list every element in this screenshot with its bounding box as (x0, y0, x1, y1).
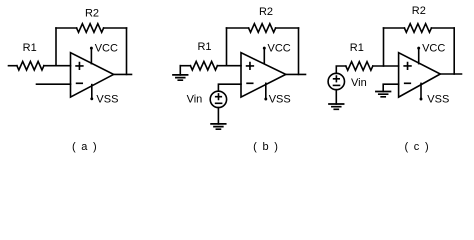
wire: Vin top to R1 (c) (336, 66, 346, 73)
svg-text:R1: R1 (350, 42, 364, 54)
svg-text:( a ): ( a ) (72, 141, 98, 153)
VCC node dot (a) (90, 47, 93, 50)
svg-text:( c ): ( c ) (404, 141, 429, 153)
svg-text:VSS: VSS (269, 93, 291, 105)
VCC stub (b) (263, 48, 265, 64)
wire: Vin bottom to ground (c) (335, 90, 337, 104)
wire: inverting input stub (a) (37, 83, 71, 85)
VSS stub (b) (265, 83, 267, 99)
wire: Vin bottom to ground (b) (217, 108, 219, 124)
VSS stub (a) (91, 85, 93, 99)
VCC node dot (c) (417, 47, 420, 50)
svg-text:R1: R1 (23, 42, 37, 54)
Vin - polarity mark (c) (334, 84, 340, 86)
VSS node dot (c) (420, 98, 423, 101)
svg-text:VSS: VSS (96, 93, 118, 105)
ground: below Vin (b) (211, 124, 226, 129)
VSS node dot (a) (90, 97, 93, 100)
wire: feedback top right segment (c) (431, 27, 454, 29)
svg-text:R2: R2 (412, 5, 426, 17)
svg-text:Vin: Vin (187, 93, 203, 105)
wire: inverting input to ground (c) (383, 84, 398, 91)
op-amp U2 (b) (241, 53, 286, 97)
op-amp + input marker (a) (76, 63, 83, 70)
VCC node dot (b) (263, 47, 266, 50)
wire: feedback top right segment (a) (104, 27, 127, 29)
svg-text:VSS: VSS (427, 93, 449, 105)
op-amp - input marker (c) (405, 82, 411, 84)
svg-text:VCC: VCC (422, 43, 445, 55)
VCC stub (a) (90, 48, 92, 64)
wire: op-amp output (b) (286, 73, 306, 75)
wire: feedback right vertical (c) (453, 28, 455, 74)
ground: inverting input (c) (376, 92, 391, 97)
VSS node dot (b) (264, 98, 267, 101)
source Vin (b) (210, 91, 226, 107)
wire: feedback left vertical (b) (226, 28, 228, 66)
wire: feedback right vertical (a) (126, 28, 128, 74)
resistor R2 (c) (404, 24, 431, 33)
op-amp U1 (a) (71, 53, 114, 97)
source Vin (c) (328, 73, 344, 89)
svg-text:( b ): ( b ) (253, 141, 279, 153)
wire: feedback left vertical (a) (55, 28, 57, 66)
svg-text:VCC: VCC (268, 43, 291, 55)
resistor R2 (b) (249, 24, 276, 33)
svg-text:Vin: Vin (351, 77, 367, 89)
wire: feedback top left segment (c) (384, 27, 405, 29)
wire: feedback top left segment (a) (56, 27, 77, 29)
wire: op-amp output (c) (440, 73, 461, 75)
svg-text:VCC: VCC (95, 43, 118, 55)
resistor R1 (c) (346, 62, 373, 71)
resistor R1 (b) (190, 61, 217, 70)
Vin + polarity mark (c) (334, 76, 340, 82)
op-amp U3 (c) (399, 53, 441, 97)
wire: feedback right vertical (b) (298, 28, 300, 74)
wire: Vin top to inverting input (b) (218, 84, 241, 91)
wire: feedback top right segment (b) (276, 27, 299, 29)
wire: feedback top left segment (b) (227, 27, 249, 29)
wire: R1 to op-amp + input, node A junction (a) (44, 65, 71, 67)
VSS stub (c) (420, 83, 422, 99)
ground: R1 left terminal (b) (179, 66, 181, 75)
wire: R1 to op-amp + input, node junction (b) (217, 65, 241, 67)
op-amp - input marker (b) (247, 82, 253, 84)
wire: R1 to op-amp + input, node junction (c) (373, 65, 399, 67)
op-amp - input marker (a) (77, 82, 83, 84)
svg-text:R1: R1 (197, 41, 211, 53)
wire: feedback left vertical (c) (383, 28, 385, 66)
wire: input stub to R1 (a) (9, 65, 17, 67)
resistor R1 (a) (17, 61, 44, 70)
svg-text:R2: R2 (259, 6, 273, 18)
Vin - polarity mark (b) (216, 102, 222, 104)
resistor R2 (a) (77, 24, 104, 33)
svg-text:R2: R2 (85, 8, 99, 20)
wire: ground to R1 (b) (180, 65, 190, 67)
VCC stub (c) (418, 48, 420, 64)
ground: below Vin (c) (329, 104, 344, 109)
Vin + polarity mark (b) (216, 94, 222, 100)
wire: op-amp output (a) (114, 73, 132, 75)
op-amp + input marker (c) (404, 63, 411, 70)
op-amp + input marker (b) (247, 63, 254, 70)
